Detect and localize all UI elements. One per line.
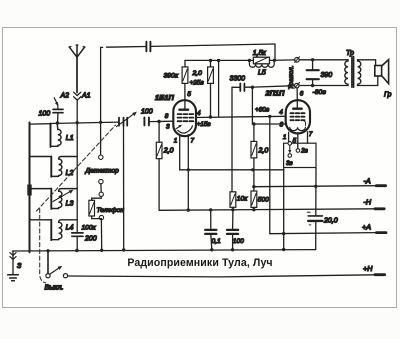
wire detector drop from top wire [100,47,102,154]
diode anode arrow tube1 [176,126,180,129]
svg-text:2П1П: 2П1П [265,89,286,98]
resistor 10k [230,192,236,210]
wire grid to tube1 [150,120,173,122]
node: +15v wire / 2,0 cap drop [209,115,212,118]
svg-text:7: 7 [309,131,313,138]
svg-text:2,0: 2,0 [163,148,174,155]
node A1 (chevron break) [74,92,81,123]
node: rail / 0,1 cap [210,248,213,251]
wire bend to HF rail [274,44,276,60]
terminal -N [375,207,384,210]
node: +80v wire / +A drop [268,115,271,118]
node: detector line crossing [99,121,102,124]
node: filament wire / pin7 [187,168,190,171]
filament tube2 [290,127,306,130]
svg-text:-Н: -Н [364,198,372,207]
coil L5 [249,60,274,67]
node: 3300 / pin3 drop [251,86,254,89]
svg-text:200: 200 [84,236,97,243]
dashed link tuning [37,125,116,211]
wire rail to +80v drop [218,61,220,117]
svg-text:+Н: +Н [363,264,373,273]
svg-text:100к: 100к [82,225,97,232]
svg-text:8: 8 [165,113,169,120]
resistor 390k [182,61,188,84]
node: rail / telephone chain [100,249,103,252]
chassis bus (thick) [29,123,31,253]
grids tube1 [178,114,194,121]
node: rail / filament drop [282,248,285,251]
wire filament minus drop [283,168,285,250]
svg-text:Радиоприемники Тула, Луч: Радиоприемники Тула, Луч [127,257,272,269]
svg-text:А1: А1 [81,93,91,100]
svg-text:+25в: +25в [190,80,205,87]
node: rail / +80v drop [217,59,220,62]
coil L3 [30,189,78,209]
svg-text:2в: 2в [300,147,308,154]
svg-text:1Б1П: 1Б1П [155,93,174,102]
grids tube2 [290,113,304,120]
terminal +N [375,273,385,276]
capacitor 3300 [232,84,294,92]
jack Detektor [99,155,104,197]
svg-text:3в: 3в [286,160,293,167]
svg-text:390: 390 [321,72,333,79]
anode plate tube2 [296,100,298,109]
svg-text:1,5к: 1,5к [253,50,267,57]
svg-text:З: З [17,263,22,270]
svg-text:L2: L2 [66,170,74,177]
terminal A2 [54,98,58,109]
node: pin3 wire / 2,0 R top [252,122,255,125]
node: 390 cap top [311,58,314,61]
antenna W1 [69,45,85,93]
node: rail / L5 right [273,59,276,62]
svg-text:+80в: +80в [255,106,270,113]
terminal +A [376,231,386,234]
pin 6 (anode tube2) [296,88,298,100]
capacitor 390 [307,60,319,86]
wire -N [159,209,376,211]
node: 390 cap bottom [311,84,314,87]
filament selector box [284,143,316,167]
node: -A wire / 500 R [252,185,255,188]
coil L1 [51,123,62,147]
svg-text:5: 5 [187,91,191,98]
wire top horizontal [101,44,275,47]
svg-text:2,0: 2,0 [258,148,269,155]
resistor 2,0 (tube2) [251,124,257,191]
filament tube1 [178,126,193,133]
resistor 1,5k [253,57,269,64]
ground symbol [8,251,19,281]
node: rail / 100 cap [231,248,234,251]
svg-text:2,0: 2,0 [192,70,203,77]
svg-text:6: 6 [300,91,304,98]
svg-text:100: 100 [141,109,153,116]
switch Vykl [46,251,68,278]
svg-text:20,0: 20,0 [323,218,338,225]
node: grid leak junction [157,120,160,123]
svg-text:4: 4 [197,110,201,117]
svg-text:390к: 390к [164,73,179,80]
node: -N wire / 10k R [231,208,234,211]
svg-text:0,1: 0,1 [212,238,221,245]
wire 3300 left drop [231,87,233,192]
pin 4 wire tube1 to +15v [196,116,286,117]
svg-text:1: 1 [174,137,178,144]
svg-text:10к: 10к [237,196,248,203]
svg-text:3: 3 [280,122,284,129]
capacitor 100 (antenna A2) [53,109,63,123]
node: A1 / tap bus junction [76,121,79,124]
dashed link switch [40,209,46,283]
variometer arrow L3 [53,191,71,201]
wire transformer bottom [299,85,348,87]
svg-text:-А: -А [364,177,371,186]
svg-text:3300: 3300 [230,76,246,83]
wire pin3 tube2 [252,87,285,124]
coil L4 [30,220,78,240]
capacitor 2,0 +25v [208,61,214,118]
transformer Tr [345,57,361,88]
svg-text:Тр: Тр [346,50,354,57]
pins below tube2 [288,132,290,141]
node: rail / 2,0 cap [209,59,212,62]
terminal Transl lower [295,83,300,88]
node: rail / switch riser [46,249,49,252]
resistor 100k (telephone shunt) [89,197,102,220]
tube U2 2П1П envelope [286,100,310,133]
svg-text:+А: +А [362,223,371,232]
pin 5 (anode tube1) [184,84,186,101]
anode plate tube1 [184,100,186,110]
svg-text:L4: L4 [66,225,74,232]
svg-text:100: 100 [39,111,51,118]
capacitor C top coupling [146,42,150,52]
node: filament wire / 2,0 R [251,168,254,171]
node: -N wire / 500 R [252,208,255,211]
tube U1 1Б1П envelope [173,100,196,136]
svg-text:7: 7 [191,137,195,144]
wire box right to -A and 20,0 [315,168,317,216]
speaker Gr [358,60,389,86]
node: A2 cap / L1 top junction [56,121,59,124]
wire +80v vertical to +A [270,116,377,233]
wire grid input [30,122,119,124]
antenna tap bus [76,123,78,251]
pin 1 tube1 / filament wire to tube2 [180,135,284,170]
resistor 500 [251,191,257,210]
svg-text:А2: А2 [60,93,70,100]
node: -A wire / 20,0 cap [314,185,317,188]
svg-text:1: 1 [283,134,287,141]
svg-text:Гр: Гр [384,92,392,99]
svg-text:Трансл.: Трансл. [288,65,295,89]
node: -N wire / 0,1 cap [209,208,212,211]
svg-text:500: 500 [258,197,269,204]
node: rail / L5 left [248,59,251,62]
capacitor 100 (grid) [144,117,149,125]
svg-text:Выкл.: Выкл. [45,285,64,292]
node: rail / tuning cap drop [122,248,125,251]
HF rail [185,59,295,62]
svg-text:100: 100 [233,238,244,245]
wire -A [254,186,376,187]
resistor 2,0 (tube1 grid leak) [156,122,162,211]
terminal Transl upper [295,58,300,63]
terminal -A [376,184,385,187]
capacitor 200 [72,233,83,236]
node: rail / tap bus [75,249,78,252]
svg-text:4: 4 [279,109,283,116]
wire to transformer top [299,59,348,61]
coil L2 [30,157,78,177]
svg-text:-80в: -80в [313,89,327,96]
svg-text:3: 3 [166,123,170,130]
node: +A wire / filament drop [282,232,285,235]
svg-text:Детектор: Детектор [85,168,120,175]
pin 7 tube1 [187,135,189,210]
svg-text:+15в: +15в [197,121,211,128]
capacitor 100 (cathode) [227,210,238,250]
capacitor 20,0 electrolytic [307,212,322,249]
bottom rail (ground) [13,250,316,251]
wire +N [68,275,375,277]
capacitor 0,1 [205,210,216,250]
variable capacitor (tuning) [117,112,137,250]
svg-text:L5: L5 [258,70,266,77]
svg-text:L1: L1 [66,135,74,142]
svg-text:Телефон: Телефон [97,207,125,214]
node: -N wire / pin7 drop [187,208,190,211]
svg-text:L3: L3 [66,201,74,208]
